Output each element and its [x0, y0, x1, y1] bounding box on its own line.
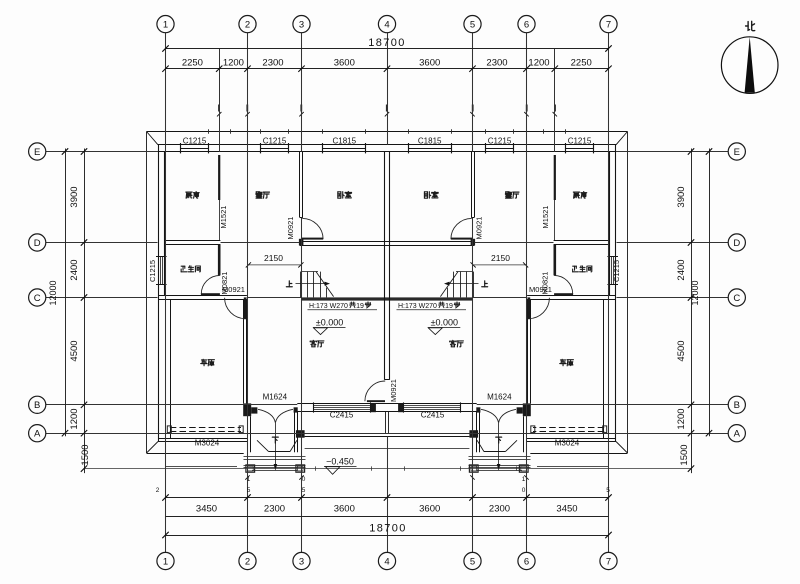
- terrace divider at grid4: [385, 412, 387, 433]
- svg-text:6: 6: [524, 20, 529, 31]
- bottom segment dims: [166, 497, 609, 499]
- porch down label right: [496, 437, 502, 443]
- north compass: [721, 37, 778, 94]
- svg-text:H:173 W270: H:173 W270: [398, 303, 437, 310]
- room label living left: [310, 340, 316, 346]
- svg-text:4500: 4500: [69, 340, 80, 361]
- svg-text:12000: 12000: [48, 280, 58, 305]
- svg-text:M0921: M0921: [286, 217, 295, 240]
- svg-text:4: 4: [384, 556, 389, 567]
- svg-text:6: 6: [524, 556, 529, 567]
- grid bubbles top 1-7: [157, 16, 174, 33]
- wall on grid 3 dining/bedroom: [299, 152, 301, 218]
- svg-text:4: 4: [384, 20, 389, 31]
- garage inner wall face left: [170, 300, 172, 439]
- door M0921 bedroom leaf and arc: [302, 238, 323, 240]
- room label living right: [450, 340, 456, 346]
- bottom middle rail: [166, 516, 609, 518]
- svg-text:C: C: [34, 293, 41, 304]
- exterior top wall (E axis): [158, 144, 387, 146]
- exterior left wall: [158, 145, 160, 442]
- svg-text:C1815: C1815: [418, 137, 442, 146]
- terrace pier at porch: [296, 430, 305, 438]
- svg-text:±0.000: ±0.000: [316, 317, 343, 327]
- svg-text:1200: 1200: [676, 408, 687, 429]
- svg-text:2300: 2300: [264, 504, 285, 515]
- svg-text:3900: 3900: [69, 186, 80, 207]
- svg-text:5: 5: [606, 487, 610, 494]
- stairs up arrow: [296, 283, 325, 285]
- svg-text:0: 0: [522, 487, 526, 494]
- svg-text:M0921: M0921: [389, 379, 398, 402]
- garage apron line: [166, 466, 237, 468]
- stair up label left: [286, 281, 292, 287]
- garage front wall: [158, 438, 248, 440]
- svg-text:1: 1: [163, 20, 168, 31]
- svg-text:A: A: [34, 429, 41, 440]
- svg-text:2: 2: [156, 487, 160, 494]
- svg-text:0: 0: [302, 476, 306, 483]
- porch columns: [246, 465, 255, 472]
- porch down label left: [272, 437, 278, 443]
- door M1624 double arcs: [258, 409, 275, 423]
- room label dining right: [505, 192, 511, 198]
- svg-text:5: 5: [302, 487, 306, 494]
- grid bubbles right A-E: [728, 143, 745, 160]
- top segment dims: [166, 68, 609, 70]
- party wall grid 4: [384, 152, 386, 380]
- porch center line with down arrow: [275, 423, 277, 470]
- horizontal axis lines A-E segmented: [46, 151, 158, 153]
- svg-text:M1521: M1521: [219, 206, 228, 229]
- svg-text:B: B: [734, 400, 740, 411]
- stairs: [300, 272, 302, 298]
- C wall below stairs g3-g4: [302, 297, 388, 300]
- svg-text:5: 5: [470, 20, 475, 31]
- door M0921 living rooms leaf and arc: [367, 400, 385, 402]
- svg-text:C1815: C1815: [333, 137, 357, 146]
- svg-text:D: D: [733, 238, 740, 249]
- svg-text:3900: 3900: [676, 186, 687, 207]
- room label bedroom left: [338, 192, 344, 198]
- svg-text:C2415: C2415: [421, 411, 445, 420]
- porch steps: [244, 456, 306, 458]
- svg-text:2300: 2300: [486, 58, 507, 69]
- svg-text:1: 1: [247, 476, 251, 483]
- svg-text:5: 5: [470, 556, 475, 567]
- micro jamb marks top: [218, 105, 220, 112]
- svg-text:B: B: [34, 400, 40, 411]
- svg-text:3600: 3600: [334, 504, 355, 515]
- svg-text:−0.450: −0.450: [326, 456, 354, 466]
- left segment dims: [84, 149, 86, 474]
- svg-text:1: 1: [522, 476, 526, 483]
- grid bubbles left A-E: [29, 143, 46, 160]
- room label dining left: [256, 192, 262, 198]
- svg-text:2: 2: [245, 20, 250, 31]
- left overall dim 12000: [65, 149, 67, 437]
- B wall living front: [297, 403, 387, 405]
- svg-text:1500: 1500: [80, 444, 91, 465]
- terrace step line: [305, 448, 387, 450]
- door M0821 bathroom leaf and arc: [201, 293, 220, 295]
- svg-text:A: A: [734, 429, 741, 440]
- svg-text:M3024: M3024: [555, 439, 580, 448]
- svg-text:1200: 1200: [69, 408, 80, 429]
- svg-text:19: 19: [445, 303, 453, 310]
- svg-text:E: E: [734, 147, 740, 158]
- svg-text:1500: 1500: [679, 444, 690, 465]
- pier at B grid2: [243, 403, 251, 416]
- garage right wall grid2: [243, 299, 245, 403]
- right overall dim 12000: [709, 149, 711, 437]
- right segment dims: [691, 149, 693, 474]
- door M1624 jambs: [251, 407, 257, 413]
- small ground ticks: [315, 466, 317, 470]
- svg-text:C1215: C1215: [183, 137, 207, 146]
- svg-text:2: 2: [245, 556, 250, 567]
- svg-text:M0921: M0921: [529, 285, 552, 294]
- svg-text:C1215: C1215: [568, 137, 592, 146]
- svg-text:±0.000: ±0.000: [431, 317, 458, 327]
- svg-text:C2415: C2415: [330, 411, 354, 420]
- svg-text:3600: 3600: [334, 58, 355, 69]
- door M0921 garage leaf and arc: [244, 297, 247, 319]
- window C1215 dining top: [260, 148, 288, 150]
- svg-text:C1215: C1215: [612, 260, 621, 282]
- window C1815 bedroom top: [323, 148, 366, 150]
- svg-text:H:173 W270: H:173 W270: [309, 303, 348, 310]
- svg-text:2300: 2300: [489, 504, 510, 515]
- svg-text:M0921: M0921: [222, 285, 245, 294]
- svg-text:18700: 18700: [368, 37, 406, 49]
- micro jamb marks bottom: [245, 475, 249, 479]
- micro mark grid4 top: [386, 105, 388, 112]
- intermediate axis lines: [219, 49, 221, 153]
- svg-text:E: E: [34, 147, 40, 158]
- bottom overall dim 18700: [166, 535, 609, 537]
- svg-text:2250: 2250: [182, 58, 203, 69]
- room label garage left: [201, 359, 207, 365]
- svg-text:2250: 2250: [571, 58, 592, 69]
- svg-text:3600: 3600: [419, 504, 440, 515]
- kitchen-dining wall with slider M1521: [218, 155, 220, 200]
- svg-text:2150: 2150: [264, 253, 283, 263]
- svg-text:19: 19: [356, 303, 364, 310]
- window C2415: [314, 405, 371, 407]
- room label bathroom left: [181, 266, 187, 272]
- svg-text:2150: 2150: [491, 253, 510, 263]
- svg-text:C1215: C1215: [148, 260, 157, 282]
- svg-text:1200: 1200: [528, 58, 549, 69]
- svg-text:7: 7: [606, 20, 611, 31]
- svg-text:M0921: M0921: [474, 217, 483, 240]
- svg-text:2400: 2400: [676, 259, 687, 280]
- svg-text:M1624: M1624: [487, 393, 512, 402]
- terrace front edge: [305, 433, 387, 435]
- room label kitchen right: [573, 192, 579, 198]
- room label kitchen left: [186, 192, 192, 198]
- svg-text:2300: 2300: [262, 58, 283, 69]
- svg-text:3: 3: [299, 556, 304, 567]
- svg-text:4500: 4500: [676, 340, 687, 361]
- svg-text:D: D: [34, 238, 41, 249]
- svg-text:7: 7: [606, 556, 611, 567]
- svg-text:2400: 2400: [69, 259, 80, 280]
- stair up label right: [482, 281, 488, 287]
- porch canopy front edge: [257, 440, 269, 451]
- porch right wall: [294, 412, 296, 453]
- ground line front: [84, 468, 691, 470]
- room label bathroom right: [573, 266, 579, 272]
- bathroom right wall stub: [218, 244, 221, 275]
- room label garage right: [560, 359, 566, 365]
- room label bedroom right: [424, 192, 430, 198]
- svg-text:3: 3: [299, 20, 304, 31]
- eave overhang outline left: [147, 131, 388, 133]
- D wall under bedroom g3-g4: [300, 241, 388, 243]
- svg-text:1: 1: [163, 556, 168, 567]
- C wall bathroom bottom / garage top: [158, 295, 247, 297]
- svg-text:3450: 3450: [556, 504, 577, 515]
- vertical axis lines grids 1-7: [165, 33, 167, 552]
- dim 2150 hall: [248, 264, 301, 266]
- pier in B wall: [371, 403, 376, 412]
- svg-text:3600: 3600: [419, 58, 440, 69]
- svg-text:M3024: M3024: [195, 439, 220, 448]
- top overall dim 18700: [166, 48, 609, 50]
- svg-text:18700: 18700: [369, 523, 407, 535]
- svg-text:C1215: C1215: [488, 137, 512, 146]
- svg-text:M1624: M1624: [263, 393, 288, 402]
- svg-text:M1521: M1521: [541, 206, 550, 229]
- svg-text:C1215: C1215: [263, 137, 287, 146]
- svg-text:3450: 3450: [196, 504, 217, 515]
- bathroom top wall at D: [165, 240, 221, 242]
- garage door M3024 dashed: [170, 427, 241, 429]
- window C1215 kitchen top: [181, 148, 209, 150]
- grid bubbles bottom 1-7: [157, 552, 174, 569]
- svg-text:C: C: [733, 293, 740, 304]
- svg-text:5: 5: [247, 487, 251, 494]
- porch left wall: [247, 416, 249, 452]
- window C1215 bathroom left wall: [160, 257, 162, 285]
- svg-text:1200: 1200: [223, 58, 244, 69]
